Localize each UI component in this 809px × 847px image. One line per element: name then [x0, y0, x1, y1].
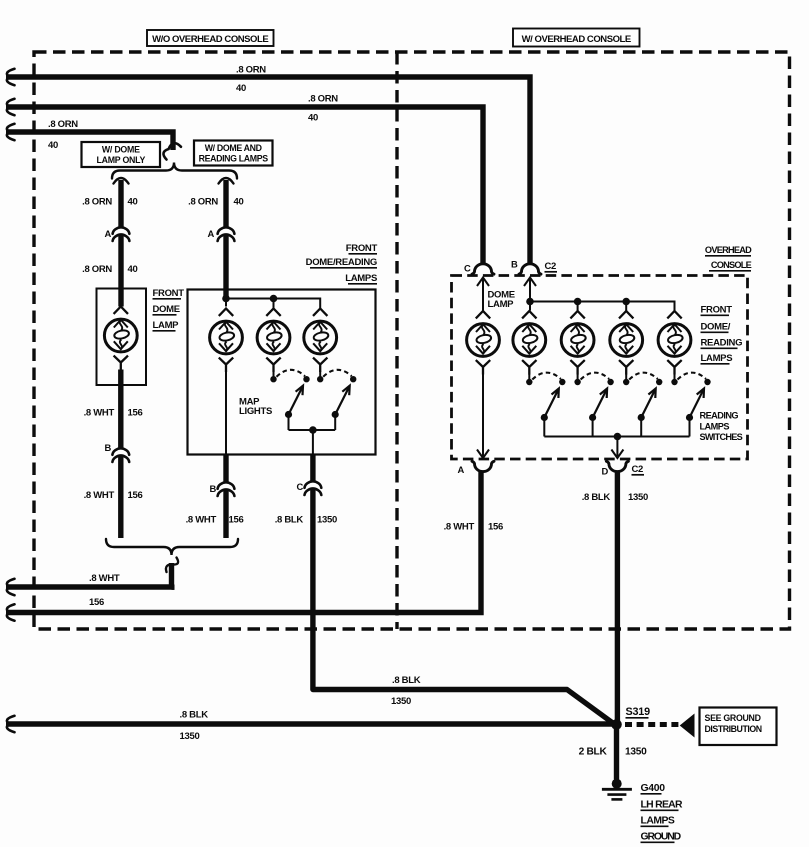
wire: reading lamp 3 stub	[625, 374, 627, 379]
node: bus junction at B feed	[526, 298, 534, 306]
dashed wire from S319 to ground distribution	[625, 722, 681, 727]
label box: W/ DOME LAMP ONLY	[82, 142, 161, 167]
label FRONT DOME/ READING LAMPS (overhead console)	[701, 305, 743, 365]
brace merging the two WHT option wires	[106, 539, 238, 555]
wire: overhead dome lamp to console exit A	[477, 374, 489, 458]
svg-text:LIGHTS: LIGHTS	[239, 406, 272, 417]
svg-text:.8 ORN: .8 ORN	[48, 119, 78, 130]
bulb: dome/reading lamp (left)	[210, 309, 243, 373]
wire: .8 BLK 1350 from map light switches to connector C	[310, 455, 315, 482]
bulb: map light 1	[257, 309, 290, 373]
connector A (dome and reading branch)	[208, 227, 235, 241]
node: switch bus junction to D	[614, 433, 622, 441]
dashed divider between W/O and W/ regions	[395, 52, 398, 629]
svg-text:.8 ORN: .8 ORN	[188, 197, 218, 208]
connector B (front dome lamp)	[105, 442, 130, 462]
bulb: overhead reading lamp 2	[561, 311, 594, 375]
component box: FRONT DOME LAMP	[97, 289, 147, 386]
wire break squiggle at branch feed end	[163, 143, 181, 159]
svg-text:40: 40	[128, 264, 138, 275]
wire: lamp supply bus (W/O console)	[226, 299, 320, 309]
label .8 ORN / 40 (third feed wire)	[48, 119, 78, 151]
label FRONT DOME/READING LAMPS (W/O console)	[306, 243, 378, 284]
svg-text:W/ OVERHEAD CONSOLE: W/ OVERHEAD CONSOLE	[522, 34, 631, 45]
label READING LAMPS SWITCHES	[700, 411, 743, 443]
svg-text:LAMP: LAMP	[153, 320, 180, 331]
label box: SEE GROUND DISTRIBUTION	[700, 708, 777, 746]
svg-text:CONSOLE: CONSOLE	[711, 260, 752, 270]
svg-text:A: A	[105, 228, 112, 239]
wire hook top of dome-lamp-only branch	[114, 178, 129, 184]
svg-text:B: B	[105, 442, 112, 453]
svg-text:LAMPS: LAMPS	[345, 273, 377, 284]
svg-text:READING: READING	[700, 411, 739, 421]
connector A (dome lamp only branch)	[105, 227, 130, 241]
label .8 ORN / 40 (dome and reading branch)	[188, 197, 243, 208]
wire: .8 ORN 40 from connector A into front dome lamp	[118, 234, 123, 307]
svg-text:1350: 1350	[628, 492, 648, 503]
wire: .8 WHT 156 below connector B to splice brace	[118, 455, 123, 538]
pin arrow into console from C	[477, 278, 489, 311]
dashed frame: W/O OVERHEAD CONSOLE region	[34, 52, 790, 629]
wire: .8 ORN 40 branch to connector A (dome and reading lamps)	[223, 180, 228, 227]
wire hook top of dome-and-reading branch	[219, 178, 234, 184]
svg-text:B: B	[210, 483, 217, 494]
switch: reading lamp 1	[526, 373, 565, 437]
wire: .8 WHT 156 from dome/reading lamp to connector B	[223, 455, 228, 483]
svg-text:.8 WHT: .8 WHT	[84, 490, 115, 501]
svg-text:1350: 1350	[391, 696, 411, 707]
bulb: overhead reading lamp 3	[610, 311, 643, 375]
svg-text:A: A	[458, 464, 465, 475]
wire: reading lamp switches common bus	[544, 436, 689, 438]
svg-text:C: C	[464, 263, 471, 274]
bulb: front dome lamp	[104, 307, 137, 371]
switch: map light 1 (w/ dashed throw arc and blade arrow)	[270, 370, 309, 430]
svg-text:156: 156	[89, 597, 104, 608]
svg-text:READING LAMPS: READING LAMPS	[199, 154, 269, 164]
wire: .8 WHT 156 from merge brace exiting left	[6, 563, 175, 587]
wire: overhead lamp supply bus	[530, 302, 675, 312]
svg-text:40: 40	[48, 140, 58, 151]
svg-text:W/ DOME: W/ DOME	[102, 145, 140, 155]
svg-text:1350: 1350	[625, 747, 647, 758]
switch: reading lamp 4	[671, 373, 710, 437]
wire hook below merge brace	[166, 558, 178, 573]
wire: reading lamp 4 stub	[674, 374, 676, 379]
svg-text:W/ DOME AND: W/ DOME AND	[205, 143, 262, 153]
svg-text:W/O OVERHEAD CONSOLE: W/O OVERHEAD CONSOLE	[152, 34, 268, 45]
wire break squiggle at left (overhead WHT wire)	[7, 604, 15, 620]
label box: W/O OVERHEAD CONSOLE	[147, 30, 274, 46]
svg-text:SWITCHES: SWITCHES	[700, 432, 743, 442]
wire: 2 BLK 1350 from S319 to ground G400	[614, 725, 619, 780]
svg-text:156: 156	[488, 522, 503, 533]
label MAP LIGHTS	[239, 397, 272, 417]
switch: reading lamp 2	[574, 373, 613, 437]
connector B (dome/reading lamps)	[210, 482, 235, 496]
label .8 ORN / 40 (second feed wire)	[308, 94, 338, 124]
svg-text:D: D	[602, 466, 609, 477]
svg-text:LAMP ONLY: LAMP ONLY	[97, 155, 146, 165]
label FRONT DOME LAMP	[153, 288, 185, 331]
ground G400 symbol	[602, 779, 632, 800]
label 2 BLK / 1350 (ground pigtail)	[579, 747, 648, 758]
label .8 WHT / 156 (below connector B)	[84, 490, 143, 501]
svg-text:FRONT: FRONT	[346, 243, 378, 254]
svg-text:DOME/: DOME/	[701, 322, 731, 333]
pin arrow into console from B	[524, 278, 536, 302]
label .8 BLK / 1350 (long ground feed)	[180, 710, 209, 743]
wire: .8 ORN 40 feed (second) to connector C	[6, 99, 483, 263]
label .8 WHT / 156 (dome/reading output)	[186, 515, 244, 526]
svg-text:SEE GROUND: SEE GROUND	[705, 713, 761, 723]
wire: .8 ORN 40 branch to connector A (dome lamp only)	[118, 180, 123, 227]
wire: .8 ORN 40 from connector A into front dome/reading lamps	[223, 234, 228, 299]
dashed box: OVERHEAD CONSOLE	[452, 276, 748, 460]
svg-text:FRONT: FRONT	[701, 305, 733, 316]
svg-text:LAMP: LAMP	[488, 299, 515, 310]
svg-text:.8 ORN: .8 ORN	[236, 65, 266, 76]
splice S319	[611, 706, 650, 730]
bulb: overhead reading lamp 4	[658, 311, 691, 375]
svg-text:.8 WHT: .8 WHT	[444, 522, 475, 533]
wire: switch common down to box exit	[312, 430, 314, 455]
svg-text:C2: C2	[632, 464, 644, 475]
svg-text:DISTRIBUTION: DISTRIBUTION	[705, 724, 762, 734]
svg-text:LAMPS: LAMPS	[701, 353, 733, 364]
switch: map light 2 (w/ dashed throw arc and blade arrow)	[317, 370, 356, 430]
svg-text:DOME: DOME	[153, 304, 180, 315]
svg-text:GROUND: GROUND	[641, 832, 682, 843]
svg-text:.8 BLK: .8 BLK	[392, 675, 421, 686]
label .8 ORN / 40 (below connector A)	[82, 264, 137, 275]
svg-text:.8 ORN: .8 ORN	[82, 264, 112, 275]
connector D / C2 (overhead console bottom)	[602, 461, 644, 476]
bulb: overhead dome lamp	[467, 311, 500, 375]
label .8 BLK / 1350 (map lights ground wire)	[275, 515, 337, 526]
label .8 WHT / 156 (overhead console ground-side wire)	[444, 522, 503, 533]
bulb: map light 2	[304, 309, 337, 373]
connector B / C2 (overhead console, from top feed)	[511, 259, 557, 275]
label .8 WHT / 156 (merged wire)	[89, 573, 120, 608]
label .8 BLK / 1350 (overhead console ground wire)	[582, 492, 648, 503]
svg-text:.8 ORN: .8 ORN	[82, 197, 112, 208]
wire: .8 BLK 1350 below connector C running to splice S319	[313, 488, 614, 724]
label G400 LH REAR LAMPS GROUND	[641, 783, 683, 843]
svg-text:LAMPS: LAMPS	[641, 816, 675, 827]
node: bus tap reading lamp 2	[574, 298, 582, 306]
wire: .8 ORN 40 feed (top) to connector B	[6, 69, 530, 263]
wire: reading lamp 1 stub	[528, 374, 530, 379]
svg-text:C2: C2	[545, 261, 557, 272]
node: junction of feed with lamp bus	[222, 295, 230, 303]
svg-text:.8 BLK: .8 BLK	[180, 710, 209, 721]
svg-text:.8 WHT: .8 WHT	[84, 408, 115, 419]
wire break squiggle at left (WHT brace wire)	[7, 579, 15, 595]
svg-text:S319: S319	[626, 706, 651, 718]
svg-text:OVERHEAD: OVERHEAD	[705, 245, 752, 255]
svg-text:1350: 1350	[180, 731, 200, 742]
svg-text:G400: G400	[641, 783, 666, 794]
wire: map light 1 stub to switch	[273, 372, 275, 377]
svg-text:.8 WHT: .8 WHT	[89, 573, 120, 584]
svg-text:40: 40	[236, 83, 246, 94]
svg-text:156: 156	[128, 490, 143, 501]
wire: .8 WHT 156 below connector B to splice brace	[223, 489, 228, 538]
node: bus tap reading lamp 3	[622, 298, 630, 306]
connector A (overhead console bottom)	[458, 461, 494, 475]
label DOME LAMP	[488, 290, 515, 311]
label box: W/ DOME AND READING LAMPS	[194, 141, 273, 166]
wire: switch common down to console exit D	[611, 437, 623, 459]
label .8 ORN / 40 (top feed wire)	[236, 65, 266, 95]
wire: map light 2 stub to switch	[319, 372, 321, 377]
svg-text:40: 40	[308, 113, 318, 124]
wire: .8 WHT 156 from front dome lamp to connector B	[118, 370, 123, 449]
svg-text:DOME/READING: DOME/READING	[306, 257, 377, 268]
svg-text:156: 156	[128, 408, 143, 419]
wire: .8 WHT 156 from overhead console connector A exiting left	[6, 471, 481, 613]
wire: .8 ORN 40 feed (third) to W/O console branch	[6, 124, 173, 150]
node: map light switch bus junction	[309, 426, 317, 434]
svg-text:.8 WHT: .8 WHT	[186, 515, 217, 526]
label box: W/ OVERHEAD CONSOLE	[513, 29, 640, 47]
switch: reading lamp 3	[623, 373, 662, 437]
svg-text:.8 BLK: .8 BLK	[275, 515, 304, 526]
svg-text:FRONT: FRONT	[153, 288, 185, 299]
connector C (overhead console, from second feed)	[464, 263, 494, 275]
label .8 ORN / 40 (dome lamp only branch)	[82, 197, 137, 208]
svg-text:READING: READING	[701, 338, 743, 349]
component box: FRONT DOME/READING LAMPS (W/O console)	[188, 290, 376, 455]
svg-text:156: 156	[229, 515, 244, 526]
wire: map light switches common bus	[289, 429, 336, 431]
connector C (map lights ground)	[297, 481, 322, 495]
svg-text:A: A	[208, 228, 215, 239]
wire: .8 BLK 1350 long ground feed exiting left	[6, 716, 612, 732]
svg-text:B: B	[511, 259, 518, 270]
label .8 BLK / 1350 (horizontal ground run)	[391, 675, 421, 707]
node: bus tap for middle map light	[270, 295, 278, 303]
svg-text:1350: 1350	[317, 515, 337, 526]
svg-text:LH REAR: LH REAR	[641, 800, 683, 811]
wire: reading lamp 2 stub	[577, 374, 579, 379]
label .8 WHT / 156 (front dome lamp output)	[84, 408, 143, 419]
label OVERHEAD CONSOLE	[705, 245, 752, 271]
wire: dome/reading lamp (left) down to box exit	[225, 372, 227, 455]
off-page arrow to ground distribution	[681, 715, 695, 737]
svg-text:40: 40	[128, 197, 138, 208]
svg-text:40: 40	[234, 197, 244, 208]
svg-text:2 BLK: 2 BLK	[579, 747, 608, 758]
brace splitting feed into two options	[112, 163, 237, 179]
svg-text:.8 ORN: .8 ORN	[308, 94, 338, 105]
bulb: overhead reading lamp 1	[513, 311, 546, 375]
wire: .8 BLK 1350 from connector D down to splice S319	[615, 471, 620, 722]
svg-text:.8 BLK: .8 BLK	[582, 492, 611, 503]
svg-text:LAMPS: LAMPS	[700, 421, 730, 431]
svg-text:C: C	[297, 481, 304, 492]
